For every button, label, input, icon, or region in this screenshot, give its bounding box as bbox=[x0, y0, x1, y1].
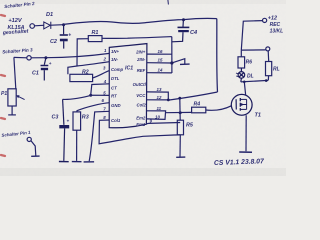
svg-text:15: 15 bbox=[158, 58, 163, 63]
terminal circle Pin2 bbox=[30, 24, 35, 29]
IC right pin numbers bbox=[150, 49, 163, 124]
resistor R2 bbox=[70, 74, 93, 81]
wire IC pin15 bbox=[147, 62, 172, 64]
svg-text:+: + bbox=[67, 119, 70, 124]
svg-text:DTL: DTL bbox=[111, 76, 120, 81]
wire T1 source down bbox=[245, 115, 247, 151]
capacitor C2 bbox=[60, 25, 68, 49]
svg-text:IC1: IC1 bbox=[125, 66, 133, 72]
svg-text:D1: D1 bbox=[46, 12, 53, 18]
node RL bottom dot bbox=[265, 79, 268, 82]
wire IC pin9 bbox=[146, 123, 180, 124]
top edge tick bbox=[167, 0, 170, 5]
svg-text:GND: GND bbox=[111, 103, 121, 108]
wire R1 right to pin16 corner bbox=[102, 37, 172, 39]
node pin12 junction dot bbox=[167, 99, 170, 102]
IC U1 body bbox=[109, 44, 147, 128]
svg-text:C4: C4 bbox=[190, 30, 198, 36]
wire IC pin14 bbox=[147, 72, 172, 74]
resistor R5 bbox=[177, 120, 183, 135]
wire IC pin5 to C3 bbox=[63, 95, 110, 99]
wire R1 left leg down bbox=[77, 39, 88, 66]
wire bottom rail of REC subcircuit bbox=[241, 80, 268, 82]
wire vertical bus through R5 bbox=[179, 98, 181, 120]
svg-text:10: 10 bbox=[155, 114, 160, 119]
capacitor C1 bbox=[41, 58, 49, 81]
svg-text:4: 4 bbox=[103, 79, 107, 84]
svg-text:R1: R1 bbox=[92, 30, 99, 36]
svg-text:Em1: Em1 bbox=[136, 122, 146, 127]
terminal circle Pin3 bbox=[27, 56, 31, 60]
svg-text:Em2: Em2 bbox=[136, 116, 146, 121]
svg-text:2: 2 bbox=[103, 57, 107, 62]
svg-text:R4: R4 bbox=[194, 102, 201, 108]
terminal circle +12 REC bbox=[263, 18, 267, 22]
svg-text:Col1: Col1 bbox=[111, 118, 121, 123]
ground bar under T1 bbox=[239, 151, 252, 153]
IC right pin labels bbox=[133, 50, 147, 128]
svg-text:R2: R2 bbox=[82, 70, 89, 76]
svg-text:R6: R6 bbox=[246, 60, 253, 66]
wire RL bottom bbox=[267, 76, 269, 81]
wire IC pin6 to R3 bbox=[77, 103, 110, 112]
IC left pin numbers bbox=[102, 48, 108, 120]
ground bar under pin7 bbox=[84, 161, 95, 163]
potentiometer P1 bbox=[8, 57, 25, 115]
LED DL bbox=[236, 68, 245, 82]
label +12V KL15A geschaltet bbox=[2, 18, 29, 36]
svg-text:REC: REC bbox=[270, 22, 281, 28]
wire IC pin11 loop bbox=[147, 111, 166, 120]
wire REC terminal left leg bbox=[241, 21, 262, 50]
paper background bbox=[0, 0, 286, 176]
svg-text:P1: P1 bbox=[1, 91, 7, 97]
wire IC pin2 to R2 node bbox=[68, 62, 110, 75]
svg-text:13: 13 bbox=[157, 87, 162, 92]
wire vertical pins16-14 bus bbox=[171, 37, 173, 73]
node drain tap dot bbox=[243, 81, 246, 84]
svg-text:+: + bbox=[49, 61, 52, 66]
ground bar under R5 bbox=[176, 156, 185, 158]
wire branch to RL terminal bbox=[241, 49, 265, 51]
ground bar under R3 bbox=[72, 161, 82, 163]
svg-text:+12: +12 bbox=[268, 16, 277, 22]
svg-text:13/KL: 13/KL bbox=[270, 29, 284, 35]
wire rail right descent to VCC bbox=[216, 19, 219, 92]
svg-text:+: + bbox=[68, 33, 71, 39]
svg-text:16: 16 bbox=[158, 49, 163, 54]
wire node B to IC pin1 bbox=[46, 53, 110, 57]
node A junction dot bbox=[62, 23, 65, 26]
resistor R1 bbox=[88, 36, 102, 42]
wire IC pin16 bbox=[147, 53, 172, 55]
wire IC pin4 down bbox=[91, 84, 110, 95]
wire R2 to IC pin3 bbox=[93, 71, 110, 78]
wire pin3 line to node B bbox=[31, 57, 46, 59]
node pin5 junction dot bbox=[89, 94, 92, 97]
svg-text:C2: C2 bbox=[50, 39, 57, 45]
resistor RL bbox=[266, 62, 272, 76]
svg-text:CT: CT bbox=[111, 86, 117, 91]
node C4 top dot bbox=[182, 18, 185, 21]
wire top +12V rail bbox=[64, 18, 217, 24]
wire T1 drain up bbox=[244, 82, 245, 95]
svg-text:REF: REF bbox=[137, 68, 146, 73]
wire pin3 line left segment bbox=[14, 56, 27, 58]
wire IC pin8 long run to R5 bottom bbox=[99, 120, 180, 144]
svg-text:RT: RT bbox=[111, 94, 117, 99]
label +12 REC 13/KL bbox=[268, 16, 283, 35]
wire R5 bottom to ground bbox=[179, 135, 181, 157]
wire R6 top leg bbox=[240, 50, 242, 57]
resistor R6 bbox=[238, 57, 245, 68]
svg-text:C1: C1 bbox=[32, 71, 39, 77]
node VCC slant junction dot bbox=[178, 97, 181, 100]
wire R4 to gate bbox=[206, 106, 232, 111]
red page margin marks bbox=[1, 15, 5, 156]
wire emitters to R4 bbox=[165, 111, 191, 113]
svg-text:11: 11 bbox=[157, 106, 162, 111]
wire VCC slant line bbox=[169, 92, 218, 100]
wire Pin1 to ground bbox=[31, 141, 36, 156]
wire R3 bottom to ground bbox=[76, 130, 78, 161]
node B junction dot bbox=[44, 56, 47, 59]
svg-text:OutCtl: OutCtl bbox=[133, 82, 147, 87]
wire IC pin13 loop bbox=[147, 92, 168, 100]
wire IC pin12 bbox=[147, 99, 168, 101]
svg-text:2IN-: 2IN- bbox=[136, 57, 146, 62]
wire IC pin7 GND down bbox=[89, 111, 109, 161]
capacitor C3 bbox=[59, 99, 69, 161]
ground bar under Pin1 bbox=[31, 155, 39, 157]
wire terminal to D1 bbox=[35, 24, 44, 27]
wire D1 to node A bbox=[51, 24, 63, 27]
terminal circle Pin1 bbox=[27, 137, 31, 141]
wire RL top bbox=[267, 51, 270, 62]
capacitor C4 bbox=[172, 20, 189, 42]
svg-text:R5: R5 bbox=[186, 123, 194, 129]
svg-text:C3: C3 bbox=[52, 115, 59, 121]
node pin15 junction dot bbox=[170, 61, 173, 64]
svg-text:1N+: 1N+ bbox=[111, 49, 119, 54]
node R4 line junction dot bbox=[179, 111, 182, 114]
ground near pins 15-14 bbox=[173, 59, 190, 65]
svg-text:VCC: VCC bbox=[136, 93, 146, 98]
transistor T1 bbox=[231, 94, 252, 115]
terminal circle RL top bbox=[266, 47, 270, 51]
diode D1 bbox=[44, 22, 51, 29]
resistor R4 bbox=[192, 107, 206, 113]
svg-text:+12V: +12V bbox=[8, 18, 22, 24]
svg-text:2IN+: 2IN+ bbox=[135, 50, 146, 55]
svg-text:1N-: 1N- bbox=[111, 57, 118, 62]
svg-text:RL: RL bbox=[273, 67, 280, 73]
svg-text:14: 14 bbox=[158, 68, 163, 73]
svg-text:Col2: Col2 bbox=[136, 103, 146, 108]
svg-text:R3: R3 bbox=[82, 115, 89, 121]
svg-text:DL: DL bbox=[247, 74, 254, 80]
resistor R3 bbox=[73, 112, 81, 130]
svg-text:T1: T1 bbox=[255, 113, 262, 119]
svg-text:Comp: Comp bbox=[111, 67, 124, 72]
IC left pin labels bbox=[111, 49, 124, 123]
